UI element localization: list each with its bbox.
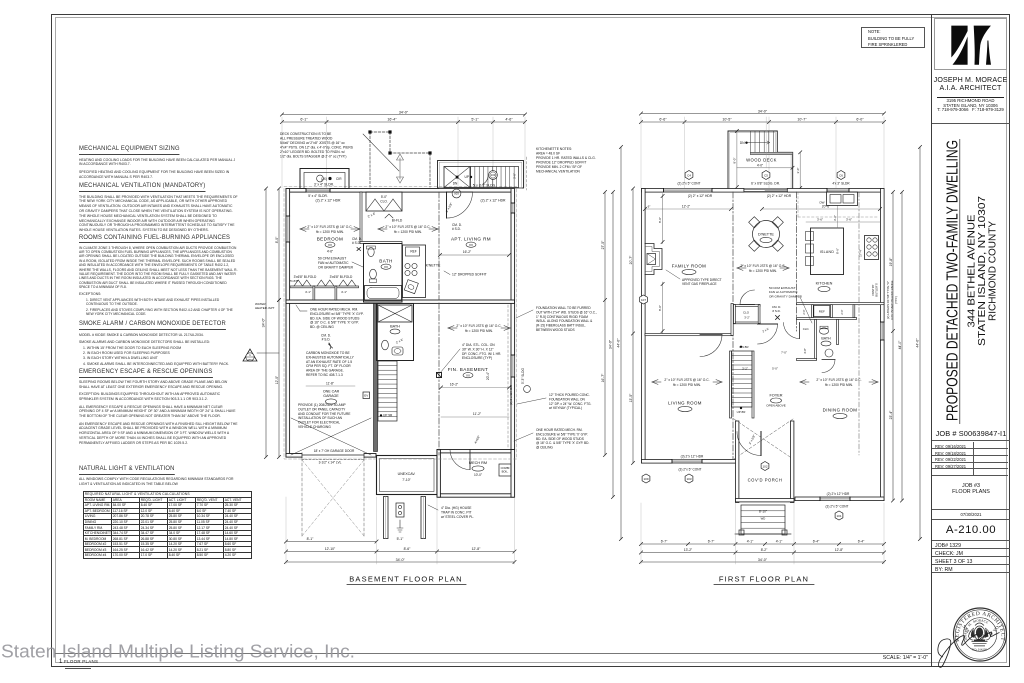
ff bottom windows/headers right [820, 497, 850, 501]
bath (basement apt) [364, 244, 403, 303]
combi boiler [499, 464, 511, 476]
natural light & ventilation table [83, 491, 252, 559]
bi-fold closets bottom of bedroom [290, 286, 359, 288]
sheet title [932, 483, 1010, 496]
deck leader line [363, 134, 399, 171]
left column: SMOKE ALARM [79, 320, 238, 369]
note box: fire sprinklered [861, 27, 925, 48]
porch steps [741, 505, 785, 534]
covd porch walls [736, 421, 739, 503]
Morace M logo [951, 26, 991, 65]
deck stair treads [749, 131, 751, 152]
living room door arc [700, 335, 722, 357]
island [811, 228, 844, 275]
basement left wall window [286, 216, 290, 242]
basement top wall windows [306, 189, 330, 193]
job info rows [932, 541, 1010, 549]
stair window tag [489, 171, 498, 180]
basement top dimension 34ft [282, 114, 525, 116]
stair x-box [444, 167, 470, 188]
dinette table [753, 221, 780, 248]
basement top dimension segments [282, 121, 525, 123]
svg-text:Staten Island Multiple Listing: Staten Island Multiple Listing Service, … [1, 641, 355, 662]
window circles C4 C5 C6 [685, 171, 693, 180]
kitchen hall door [784, 323, 800, 339]
left column: EMERGENCY ESCAPE [79, 368, 238, 449]
bedroom partition walls [360, 192, 362, 243]
hall door right-down [758, 324, 778, 344]
door arc into apt living rm [447, 192, 473, 218]
furring dashed line right wall [507, 305, 509, 448]
ff center stairs [730, 351, 732, 418]
interior wall family/living [645, 334, 733, 336]
revision rows [932, 442, 1008, 449]
joist separation dashed lines [732, 192, 734, 459]
ff outer walls [642, 189, 885, 193]
kitchen dashed refline [858, 192, 860, 455]
house trap symbol [396, 503, 404, 517]
basement footing dashed lines [284, 187, 517, 460]
architect logo box [934, 18, 1007, 71]
wood deck outline [728, 131, 793, 188]
deck double arrow [399, 158, 401, 179]
garage X diagonals [291, 418, 371, 455]
left column: MECHANICAL VENTILATION [79, 182, 238, 236]
pantry band walls [797, 303, 885, 305]
hex 107 left wall [640, 295, 648, 304]
extension lines [281, 117, 283, 188]
porch posts below unexcavated [384, 497, 389, 539]
stove burners [405, 263, 410, 268]
center closet [734, 305, 761, 307]
covd porch label [761, 462, 769, 471]
closet top-middle [366, 192, 402, 211]
center stair basement [374, 304, 378, 452]
garage door opening [302, 453, 364, 458]
mech room walls [437, 450, 515, 453]
ff bath walls [815, 320, 817, 360]
ff bottom windows/headers left [672, 460, 702, 464]
unit separation dash-dot [438, 192, 440, 300]
basement outer walls [286, 189, 515, 193]
joist arrows bedroom [300, 227, 306, 229]
kitchen soffit dashed [798, 216, 879, 218]
mech rm door arc [450, 450, 470, 470]
basement mid floor wall [286, 300, 515, 303]
ff top wall windows [664, 189, 713, 193]
bay window top-left [300, 169, 349, 189]
left column: MECHANICAL EQUIPMENT SIZING [79, 145, 238, 182]
job number [932, 429, 1010, 438]
ff right side dims [892, 192, 894, 501]
kitchen counter top right [827, 192, 858, 206]
basement left side dims [278, 189, 280, 301]
joist arrows apt living [378, 227, 384, 229]
kitchenette counter [403, 245, 426, 298]
basement right wall window [511, 355, 515, 377]
bath door arc [822, 360, 835, 373]
basement right side dims [604, 192, 606, 455]
stair bump top-right [438, 161, 524, 189]
basement bottom dims [286, 541, 377, 543]
unexcavated area walls [377, 456, 438, 495]
ff right wall window (pantry) [881, 322, 885, 340]
basement right wall window upper [511, 203, 515, 213]
toilet [370, 269, 377, 279]
fireplace [645, 244, 662, 275]
living room [652, 380, 658, 382]
abv section triangle [243, 349, 257, 361]
tub [365, 286, 402, 301]
closet door above [740, 290, 755, 305]
sheet number tag bottom-left [59, 659, 98, 670]
ff top dimension 34ft [641, 113, 884, 115]
bottom scale strip [55, 653, 931, 654]
ff bottom dims [641, 543, 884, 545]
ff left side dims [632, 189, 634, 464]
basement bath lower [377, 304, 414, 361]
k sink [404, 280, 418, 294]
deck internal dims [736, 131, 738, 187]
stair treads [471, 167, 519, 188]
fridge [814, 306, 830, 317]
left column: ROOMS CONTAINING FUEL-BURNING APPLIANCES [79, 234, 238, 319]
ff bath fixtures [819, 328, 828, 334]
dinette joist band [737, 266, 743, 268]
fin basement joist arrows [448, 326, 454, 328]
date [932, 512, 1010, 517]
sheet number A-210.00 [932, 524, 1010, 536]
driveway dashed below garage door [301, 458, 303, 538]
architect name block [933, 76, 1008, 93]
porch door arc [737, 432, 761, 456]
left column: NATURAL LIGHT & VENTILATION [79, 465, 238, 490]
deck step band [750, 152, 792, 154]
EV box [363, 392, 370, 399]
hex 109 [642, 474, 650, 483]
dining room [800, 380, 806, 382]
deck (dashed, pressure treated) [370, 132, 430, 187]
signature scrawl [938, 632, 1000, 667]
title block column [931, 14, 1010, 668]
foyer dashed X [734, 419, 793, 459]
range right wall [865, 236, 879, 260]
